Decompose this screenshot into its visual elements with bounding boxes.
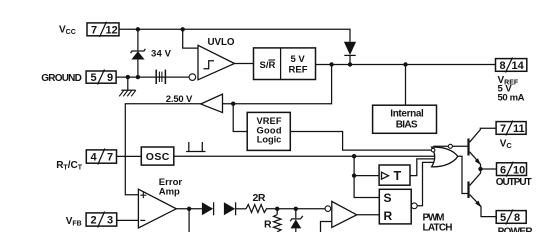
svg-text:12: 12 [106,25,118,37]
pin box 2/3 [86,212,117,228]
wire zener 34V top stub [137,29,139,50]
wire R resistor stub [276,209,278,215]
transistor Q2 base bar [467,182,469,199]
junction dot clock branch [352,154,356,158]
svg-text:BIAS: BIAS [396,119,418,130]
wire comparator output to latch R input [357,214,380,216]
svg-text:S/R: S/R [260,60,276,71]
NOR gate [432,147,458,167]
transistor Q2 emitter arrow [475,201,481,208]
svg-text:10: 10 [513,164,525,176]
pin box 5/9 [86,70,116,85]
junction dot 2.5V line [231,102,235,106]
block VREF Good Logic [247,112,290,150]
block Internal BIAS [373,105,437,133]
wire 5V REF down to 2.50V line [201,65,332,104]
resistor 2R [246,205,269,213]
svg-text:50 mA: 50 mA [498,93,525,104]
junction dot ground-gndsym [126,75,130,79]
pin box 6/10 [497,162,527,177]
svg-text:7: 7 [107,152,113,164]
svg-text:R: R [384,209,393,223]
wire current sense input from below [321,222,332,233]
junction dot VREF-2.5V [329,62,333,66]
block S/R and 5V REF [254,48,316,80]
svg-text:Internal: Internal [390,109,424,120]
svg-text:14: 14 [512,60,525,72]
junction dot 2R-R [275,207,279,211]
svg-text:5: 5 [91,72,97,84]
wire T output up to gate input [410,159,435,176]
svg-text:2.50 V: 2.50 V [166,94,193,105]
ground symbol [119,77,136,96]
svg-text:2R: 2R [253,192,266,204]
UVLO inverting input bubble [189,74,196,81]
block T flip-flop [379,165,410,185]
transistor Q2 emitter [470,195,497,217]
junction dot VREF-diode [348,62,352,66]
diode D3 [202,202,214,215]
wire diodes to 2R [236,208,246,210]
junction dot output node [478,167,482,171]
pin box 7/11 [496,121,526,136]
svg-text:S: S [384,191,392,205]
svg-text:5: 5 [500,212,506,224]
buffer 2.50V reference [201,94,223,113]
transistor Q1 emitter [470,152,481,169]
junction dot error amp output [187,207,191,211]
svg-text:34 V: 34 V [151,49,172,60]
wire internal bias stub [405,65,407,106]
wire zener clamp stub bottom [295,228,297,232]
svg-text:R: R [264,219,272,231]
pin box 4/7 [86,149,116,165]
svg-text:3: 3 [107,215,113,227]
wire pin 4/7 to OSC [117,155,142,157]
svg-text:Logic: Logic [257,134,282,144]
svg-text:5 V: 5 V [291,54,306,65]
battery symbol UVLO threshold [156,70,165,84]
pin box 8/14 [496,58,527,73]
wire pin 2/3 to error amp minus input [117,219,139,221]
wire error amp feedback down [188,209,190,232]
clock pulse glyph [186,142,205,152]
svg-text:OUTPUT: OUTPUT [496,177,532,188]
zener diode clamp [290,216,303,229]
error amp minus sign [140,219,145,221]
svg-text:7: 7 [91,25,97,37]
wire diode from Vcc rail to VREF rail [349,56,351,65]
transistor Q1 emitter arrow [475,158,481,165]
wire gate output down to lower transistor base [458,156,468,193]
transistor Q2 collector [470,169,481,186]
pin box 5/8 [496,210,526,225]
junction dot T clock branch [352,173,356,177]
svg-text:2: 2 [91,215,97,227]
wire OSC clock line to gate [174,155,435,157]
gate input bubble [431,148,435,152]
svg-text:T: T [394,169,402,183]
wire vref good logic input [233,104,247,132]
diode Vcc to VREF [344,42,356,56]
svg-text:UVLO: UVLO [208,37,235,48]
wire zener clamp stub top [295,209,297,219]
gate top output bubble [448,144,452,148]
block OSC [141,147,174,165]
wire UVLO plus input from Vcc rail [183,29,198,48]
wire clock branch down to T and S [354,156,379,197]
latch Qbar bubble [411,203,417,209]
diode D4 [224,202,236,215]
svg-text:VC: VC [500,139,513,151]
wire latch Qbar to gate input [417,162,436,205]
svg-text:Amp: Amp [159,186,180,197]
transistor Q1 collector [470,128,497,142]
svg-text:11: 11 [513,123,525,135]
junction dot Vcc-UVLO [181,27,185,31]
current sense comparator [332,201,357,227]
junction dot Vcc-zener [136,27,140,31]
svg-text:6: 6 [500,164,506,176]
wire ground rail [116,76,189,78]
resistor R vertical [274,215,282,232]
wire 2R to comparator bubble [269,208,326,210]
wire clock branch to T clock input [354,175,379,177]
UVLO comparator triangle [198,45,235,80]
svg-text:POWER: POWER [498,227,534,233]
wire VREF rail to pin 8/14 [316,64,496,66]
svg-text:8: 8 [514,212,520,224]
wire output node to pin 6/10 [481,168,497,170]
error amp triangle [138,189,176,228]
junction dot ground-zener [136,75,140,79]
transistor Q1 base bar [467,139,469,156]
pin box 7/12 [87,22,119,37]
svg-text:LATCH: LATCH [423,222,453,232]
block PWM latch S R [379,189,411,224]
zener diode 34V [131,49,146,60]
wire vref good logic output to gate bubble input [290,132,431,151]
wire error amp output [176,208,202,210]
wire 2.50V line to error amp plus input [125,104,200,195]
wire zener 34V bottom stub [137,59,139,77]
current sense comparator bubble [325,206,331,212]
svg-text:8: 8 [500,60,506,72]
svg-text:GROUND: GROUND [41,73,82,84]
wire gate top bubble output to upper transistor base [433,146,467,148]
wire UVLO output to S/R box [235,63,254,65]
svg-text:7: 7 [500,123,506,135]
svg-text:OSC: OSC [146,151,170,163]
junction dot zener clamp [294,207,298,211]
UVLO hysteresis glyph [204,61,215,69]
junction dot VREF-bias [403,62,407,66]
wire Vcc rail [119,29,350,41]
svg-text:4: 4 [91,152,98,164]
svg-text:REF: REF [289,64,308,75]
error amp plus sign [140,192,146,198]
svg-text:9: 9 [107,72,113,84]
